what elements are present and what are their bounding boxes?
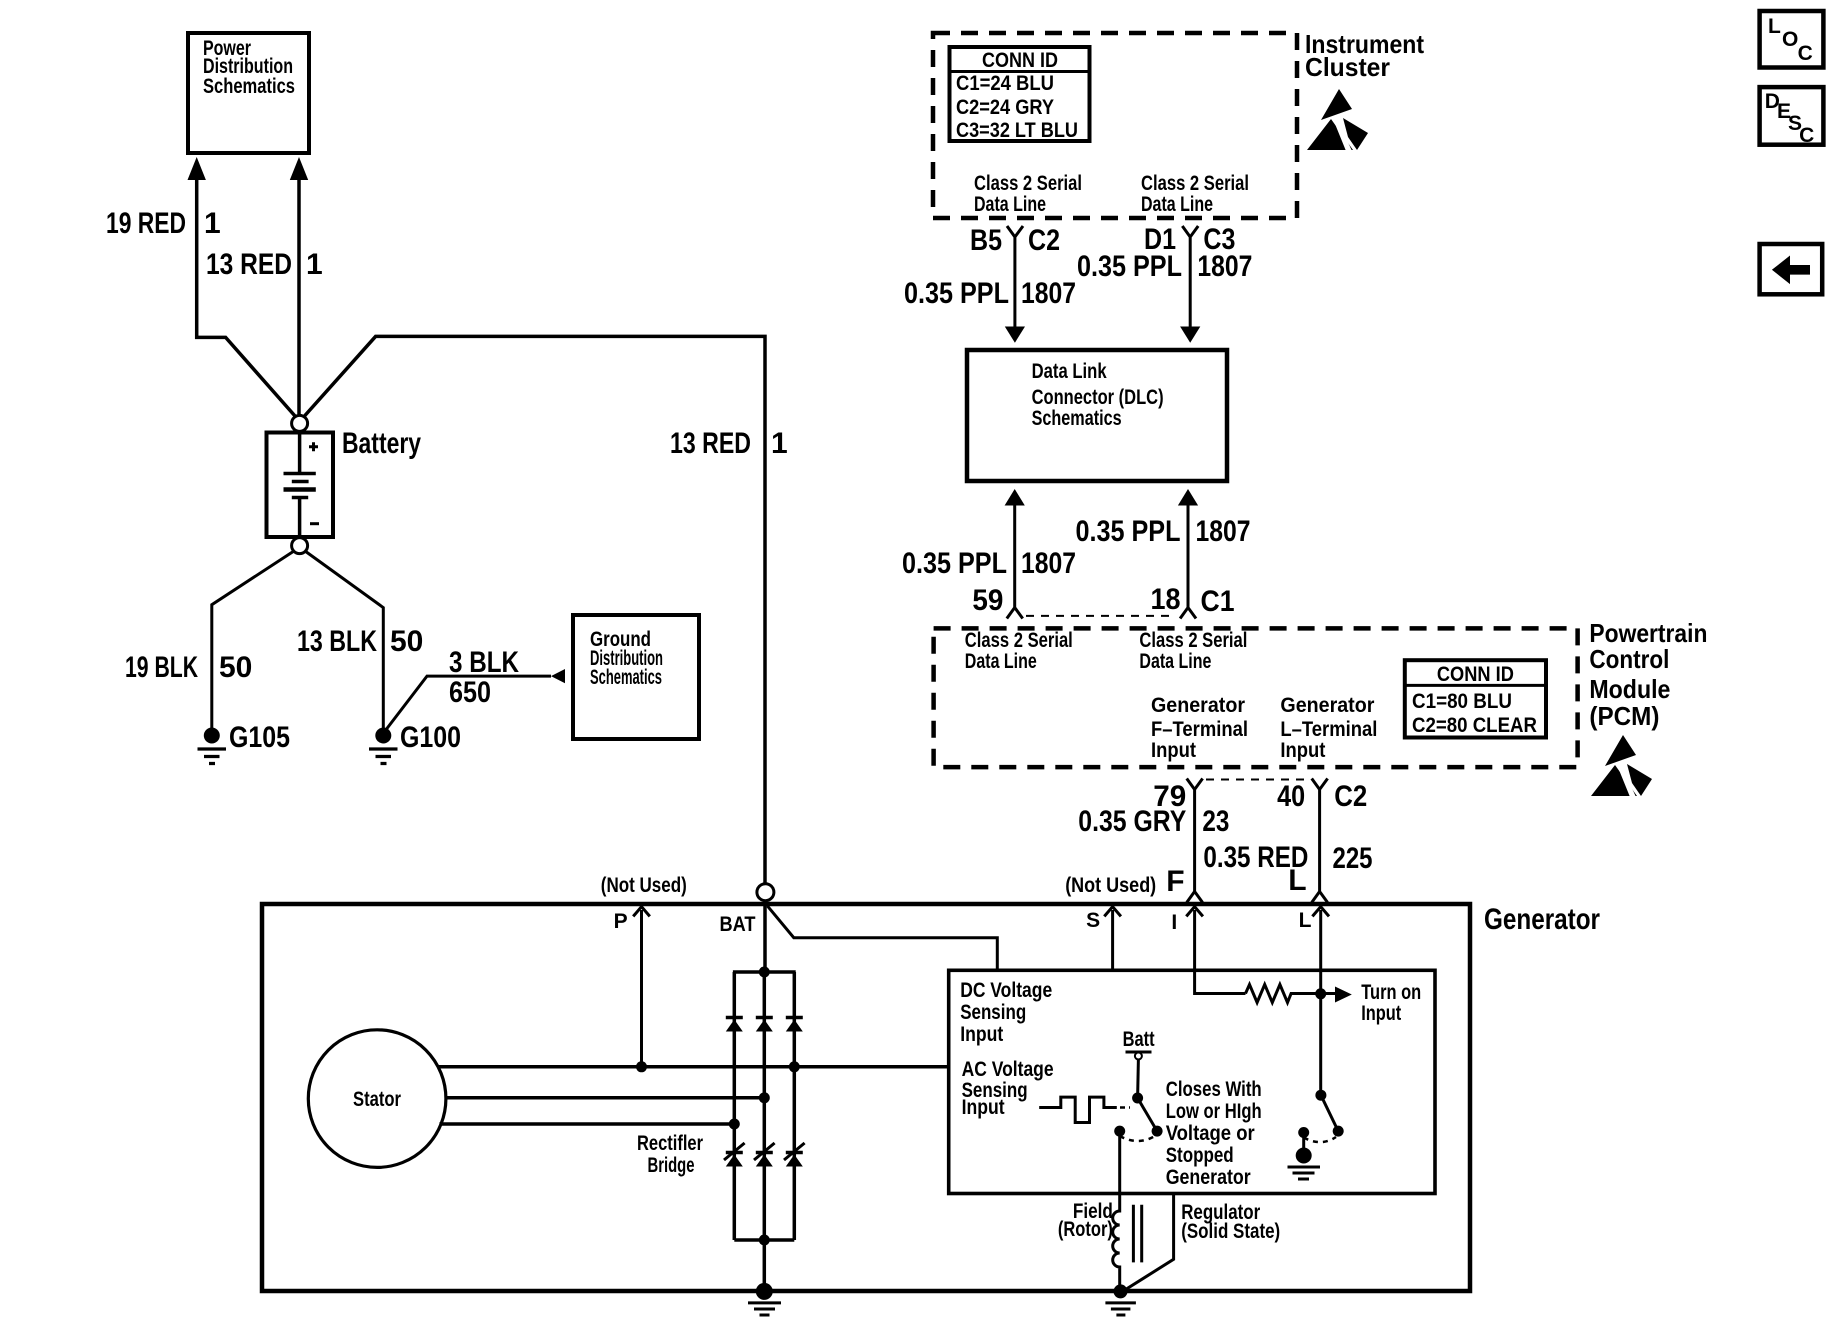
svg-text:50: 50 [219,651,252,684]
svg-text:1807: 1807 [1021,547,1076,580]
svg-text:(Not Used): (Not Used) [1065,874,1156,897]
svg-text:S: S [1086,909,1100,932]
svg-text:Voltage or: Voltage or [1166,1122,1255,1145]
svg-text:(Rotor): (Rotor) [1058,1218,1113,1241]
svg-text:C3=32 LT BLU: C3=32 LT BLU [956,119,1078,142]
svg-text:(PCM): (PCM) [1589,701,1659,731]
svg-text:59: 59 [972,584,1003,617]
svg-text:L–Terminal: L–Terminal [1280,718,1377,741]
svg-text:Data Line: Data Line [1139,650,1211,673]
svg-text:Class 2 Serial: Class 2 Serial [965,629,1073,652]
svg-text:1807: 1807 [1197,250,1252,283]
svg-text:Generator: Generator [1280,694,1374,717]
svg-text:DC Voltage: DC Voltage [960,979,1052,1002]
svg-text:13 RED: 13 RED [206,248,292,281]
svg-text:G100: G100 [400,721,461,754]
svg-text:Class 2 Serial: Class 2 Serial [1139,629,1247,652]
svg-text:Data Line: Data Line [1141,193,1213,216]
svg-text:L: L [1299,909,1312,932]
svg-text:50: 50 [390,625,423,658]
svg-text:Closes With: Closes With [1166,1078,1262,1101]
svg-text:C2: C2 [1334,780,1367,813]
svg-text:1: 1 [771,427,788,460]
svg-text:Generator: Generator [1166,1166,1251,1189]
svg-text:Input: Input [962,1096,1005,1119]
svg-text:Cluster: Cluster [1305,52,1390,82]
svg-text:1: 1 [306,248,323,281]
svg-text:Stator: Stator [353,1088,401,1111]
svg-text:Turn on: Turn on [1361,981,1421,1004]
svg-text:Bridge: Bridge [648,1154,695,1177]
svg-text:(Not Used): (Not Used) [601,874,687,897]
svg-text:CONN ID: CONN ID [982,49,1058,72]
svg-text:1: 1 [204,207,221,240]
svg-text:P: P [614,910,628,933]
svg-text:13 RED: 13 RED [670,427,751,460]
svg-text:Control: Control [1589,644,1669,674]
svg-text:C: C [1798,42,1813,65]
svg-text:F: F [1166,865,1184,898]
svg-text:Data Line: Data Line [974,193,1046,216]
svg-text:F–Terminal: F–Terminal [1151,718,1248,741]
svg-text:Input: Input [960,1023,1003,1046]
svg-text:Battery: Battery [342,427,421,460]
svg-text:Rectifler: Rectifler [637,1132,703,1155]
svg-text:1807: 1807 [1021,277,1076,310]
svg-text:Input: Input [1280,739,1325,762]
svg-text:L: L [1288,864,1306,897]
svg-text:B5: B5 [970,224,1002,257]
svg-text:Data Link: Data Link [1032,360,1107,383]
svg-text:0.35 GRY: 0.35 GRY [1078,805,1186,838]
svg-text:Connector (DLC): Connector (DLC) [1032,386,1164,409]
svg-text:Schematics: Schematics [203,75,295,98]
svg-text:I: I [1171,911,1177,934]
svg-text:G105: G105 [229,721,290,754]
svg-text:Generator: Generator [1484,903,1600,936]
svg-text:Input: Input [1151,739,1196,762]
svg-text:AC Voltage: AC Voltage [962,1058,1054,1081]
svg-text:0.35 PPL: 0.35 PPL [904,277,1009,310]
svg-text:Sensing: Sensing [960,1001,1026,1024]
svg-text:Class 2 Serial: Class 2 Serial [1141,172,1249,195]
svg-text:Schematics: Schematics [1032,407,1122,430]
svg-text:C: C [1799,124,1814,147]
svg-text:Data Line: Data Line [965,650,1037,673]
svg-text:18: 18 [1151,583,1181,616]
svg-text:C1=80 BLU: C1=80 BLU [1412,690,1512,713]
svg-text:C1: C1 [1201,585,1235,618]
svg-text:1807: 1807 [1196,515,1251,548]
svg-text:C2: C2 [1028,224,1060,257]
svg-text:L: L [1768,15,1781,38]
svg-text:19 RED: 19 RED [106,207,186,240]
svg-text:Stopped: Stopped [1166,1144,1234,1167]
svg-text:(Solid State): (Solid State) [1181,1220,1280,1243]
svg-text:Input: Input [1361,1002,1401,1025]
svg-text:23: 23 [1202,805,1229,838]
svg-text:0.35 PPL: 0.35 PPL [902,547,1007,580]
svg-text:19 BLK: 19 BLK [125,651,198,684]
svg-text:BAT: BAT [720,913,756,936]
svg-text:40: 40 [1277,780,1305,813]
svg-text:Schematics: Schematics [590,666,662,689]
svg-text:Batt: Batt [1123,1028,1155,1051]
svg-text:Class 2 Serial: Class 2 Serial [974,172,1082,195]
svg-text:225: 225 [1333,842,1373,875]
svg-text:C2=80 CLEAR: C2=80 CLEAR [1412,714,1537,737]
svg-text:13 BLK: 13 BLK [297,625,377,658]
svg-text:C2=24 GRY: C2=24 GRY [956,96,1054,119]
svg-text:C1=24 BLU: C1=24 BLU [956,72,1054,95]
svg-text:0.35 PPL: 0.35 PPL [1077,250,1182,283]
svg-text:3 BLK: 3 BLK [449,646,519,679]
svg-text:O: O [1782,28,1798,51]
svg-text:CONN ID: CONN ID [1437,663,1514,686]
svg-text:0.35 PPL: 0.35 PPL [1076,515,1181,548]
svg-text:Module: Module [1589,674,1670,704]
svg-text:Low or HIgh: Low or HIgh [1166,1100,1262,1123]
svg-text:650: 650 [449,676,491,709]
svg-text:Generator: Generator [1151,694,1245,717]
